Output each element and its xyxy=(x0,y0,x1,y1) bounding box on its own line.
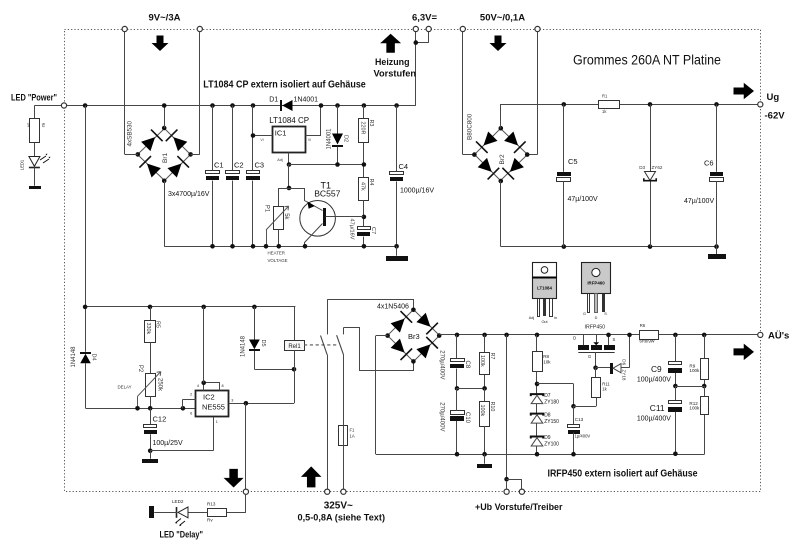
svg-text:Vorstufen: Vorstufen xyxy=(374,68,417,78)
svg-text:ZY62: ZY62 xyxy=(652,165,663,170)
svg-text:C9: C9 xyxy=(651,364,662,374)
svg-text:D2: D2 xyxy=(342,135,348,142)
svg-text:+Ub Vorstufe/Treiber: +Ub Vorstufe/Treiber xyxy=(475,502,563,512)
svg-text:ZY18: ZY18 xyxy=(622,370,627,381)
svg-text:R6: R6 xyxy=(640,323,646,328)
svg-text:100k: 100k xyxy=(479,355,485,367)
svg-text:C3: C3 xyxy=(255,161,265,170)
svg-text:325V~: 325V~ xyxy=(324,501,353,512)
svg-text:D4: D4 xyxy=(90,354,96,361)
svg-text:R3: R3 xyxy=(368,120,374,127)
svg-text:F1: F1 xyxy=(350,427,356,432)
svg-text:D6: D6 xyxy=(622,359,627,365)
svg-text:Ug: Ug xyxy=(767,92,780,103)
svg-text:C13: C13 xyxy=(575,417,584,422)
svg-text:6R8/9W: 6R8/9W xyxy=(640,338,655,343)
svg-text:C2: C2 xyxy=(234,161,244,170)
svg-text:D5: D5 xyxy=(260,340,266,347)
svg-text:IRFP450: IRFP450 xyxy=(585,325,606,331)
svg-text:Adj: Adj xyxy=(529,316,535,320)
svg-text:Out: Out xyxy=(541,320,548,324)
svg-text:1N4148: 1N4148 xyxy=(71,346,77,368)
svg-text:Adj: Adj xyxy=(277,158,283,162)
svg-text:4x1N5406: 4x1N5406 xyxy=(377,304,409,311)
svg-text:Br3: Br3 xyxy=(408,332,420,341)
svg-text:IRFP460: IRFP460 xyxy=(587,281,605,286)
svg-text:100µ/400V: 100µ/400V xyxy=(637,415,671,422)
svg-text:4xSB530: 4xSB530 xyxy=(127,120,134,146)
svg-text:DELAY: DELAY xyxy=(118,384,132,389)
svg-text:C1: C1 xyxy=(214,161,224,170)
svg-text:Grommes 260A NT Platine: Grommes 260A NT Platine xyxy=(573,53,721,68)
svg-text:R8: R8 xyxy=(543,354,549,359)
svg-text:VOLTAGE: VOLTAGE xyxy=(268,258,288,263)
svg-text:S: S xyxy=(604,312,607,316)
svg-text:10k: 10k xyxy=(543,360,551,365)
svg-text:LT1084: LT1084 xyxy=(537,285,552,290)
svg-text:1N4001: 1N4001 xyxy=(294,96,319,103)
svg-text:Rel1: Rel1 xyxy=(288,344,301,350)
svg-text:NE555: NE555 xyxy=(202,403,225,412)
svg-text:R2: R2 xyxy=(41,123,45,128)
svg-text:D1: D1 xyxy=(269,96,278,103)
svg-text:-62V: -62V xyxy=(765,110,786,121)
svg-text:LED "Delay": LED "Delay" xyxy=(160,530,204,540)
svg-text:1N4001: 1N4001 xyxy=(327,128,333,150)
svg-text:IC2: IC2 xyxy=(203,392,215,401)
svg-text:P1: P1 xyxy=(264,205,270,213)
svg-text:C5: C5 xyxy=(568,157,578,166)
svg-text:D8: D8 xyxy=(544,412,551,418)
svg-text:S: S xyxy=(613,337,616,342)
svg-text:50V~/0,1A: 50V~/0,1A xyxy=(480,13,525,24)
svg-text:R4: R4 xyxy=(368,179,374,186)
svg-text:47µ/16V: 47µ/16V xyxy=(348,219,354,240)
svg-text:BC557: BC557 xyxy=(314,188,340,198)
svg-text:D: D xyxy=(573,335,576,340)
svg-text:LED2: LED2 xyxy=(172,499,184,504)
svg-text:C11: C11 xyxy=(650,403,665,413)
svg-text:100µ/25V: 100µ/25V xyxy=(153,440,183,447)
svg-text:270µ/400V: 270µ/400V xyxy=(438,350,444,379)
svg-text:Heizung: Heizung xyxy=(375,57,410,67)
svg-text:3V: 3V xyxy=(27,123,31,128)
svg-text:C7: C7 xyxy=(370,227,376,234)
svg-text:100k: 100k xyxy=(689,405,700,410)
svg-text:47k: 47k xyxy=(360,182,366,191)
svg-text:D9: D9 xyxy=(544,435,551,441)
svg-text:270µ/400V: 270µ/400V xyxy=(438,402,444,431)
svg-text:1000µ/16V: 1000µ/16V xyxy=(400,187,434,194)
svg-text:100µ/400V: 100µ/400V xyxy=(637,376,671,383)
svg-text:100k: 100k xyxy=(689,368,700,373)
svg-text:47µ/100V: 47µ/100V xyxy=(568,196,598,203)
svg-text:In: In xyxy=(554,316,557,320)
svg-text:6: 6 xyxy=(190,412,192,416)
svg-text:3: 3 xyxy=(231,398,233,402)
svg-text:AÜ's: AÜ's xyxy=(768,331,789,342)
svg-text:G: G xyxy=(583,312,586,316)
svg-text:3x4700µ/16V: 3x4700µ/16V xyxy=(168,191,210,198)
svg-text:1A: 1A xyxy=(350,433,355,438)
svg-text:100k: 100k xyxy=(479,405,485,417)
svg-text:D: D xyxy=(595,316,598,320)
svg-text:G: G xyxy=(588,354,591,359)
svg-text:C10: C10 xyxy=(464,412,470,424)
svg-text:R10: R10 xyxy=(489,402,495,412)
svg-text:VI: VI xyxy=(308,138,311,142)
svg-text:330k: 330k xyxy=(145,323,151,335)
svg-text:C8: C8 xyxy=(464,361,470,369)
svg-text:ZY180: ZY180 xyxy=(544,400,559,406)
svg-text:5k: 5k xyxy=(283,213,289,220)
svg-text:C4: C4 xyxy=(399,162,409,171)
svg-text:9V~/3A: 9V~/3A xyxy=(149,13,181,24)
svg-text:LT1084 CP: LT1084 CP xyxy=(269,116,309,125)
svg-text:HEATER: HEATER xyxy=(268,251,285,256)
svg-text:1: 1 xyxy=(216,420,218,424)
svg-text:R1: R1 xyxy=(602,94,608,99)
svg-text:Rv: Rv xyxy=(207,517,213,522)
svg-text:2: 2 xyxy=(190,393,192,397)
svg-text:6,3V=: 6,3V= xyxy=(412,13,438,24)
svg-text:LED1: LED1 xyxy=(20,159,25,170)
svg-text:ZY150: ZY150 xyxy=(544,419,559,425)
svg-text:Br2: Br2 xyxy=(499,154,506,165)
svg-text:4: 4 xyxy=(197,384,199,388)
svg-text:D7: D7 xyxy=(544,393,551,399)
svg-text:LT1084 CP extern isoliert auf: LT1084 CP extern isoliert auf Gehäuse xyxy=(203,80,366,91)
svg-text:0,5-0,8A (siehe Text): 0,5-0,8A (siehe Text) xyxy=(298,513,386,523)
svg-text:R7: R7 xyxy=(489,353,495,360)
svg-text:IRFP450 extern isoliert auf Ge: IRFP450 extern isoliert auf Gehäuse xyxy=(548,469,698,480)
svg-text:47µ/100V: 47µ/100V xyxy=(684,198,714,205)
svg-text:P2: P2 xyxy=(137,365,143,373)
svg-text:IC1: IC1 xyxy=(275,129,287,138)
svg-text:LED "Power": LED "Power" xyxy=(11,93,57,103)
svg-text:C12: C12 xyxy=(153,415,167,424)
svg-text:R5: R5 xyxy=(155,321,161,328)
svg-text:8: 8 xyxy=(222,384,224,388)
svg-text:250k: 250k xyxy=(157,378,163,392)
svg-text:D3: D3 xyxy=(639,165,645,170)
svg-text:VI: VI xyxy=(260,138,263,142)
svg-text:R13: R13 xyxy=(207,501,216,506)
svg-text:ZY100: ZY100 xyxy=(544,442,559,448)
svg-text:1N4148: 1N4148 xyxy=(241,335,247,357)
svg-text:C6: C6 xyxy=(704,158,714,167)
svg-text:1µ/400V: 1µ/400V xyxy=(575,434,591,439)
svg-text:B80C800: B80C800 xyxy=(467,113,474,140)
svg-text:Br1: Br1 xyxy=(162,153,169,164)
svg-text:220R: 220R xyxy=(360,122,366,135)
